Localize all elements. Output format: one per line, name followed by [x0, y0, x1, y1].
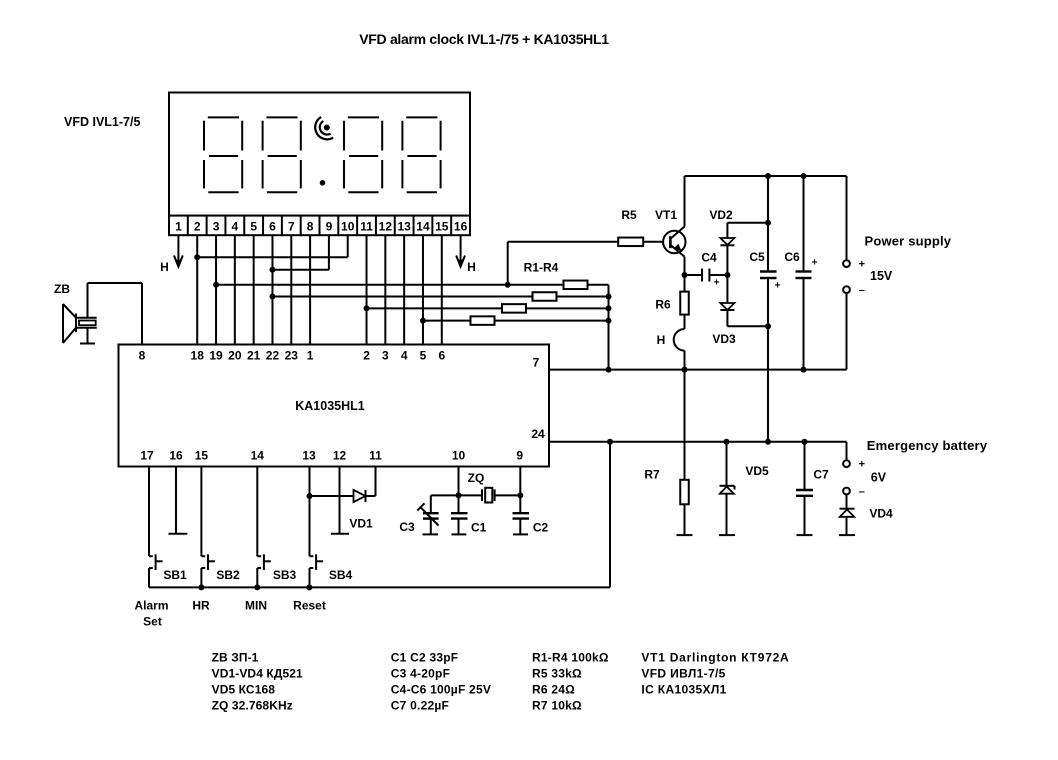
parts list column 2	[391, 651, 491, 713]
wire IC pin 10 down	[458, 467, 460, 514]
trimmer capacitor C3	[417, 495, 458, 534]
svg-text:VD5 КС168: VD5 КС168	[212, 682, 276, 696]
svg-text:SB1: SB1	[163, 568, 187, 582]
junction riser/pin24rail	[607, 439, 613, 445]
filament H arrow at display pin 1	[174, 235, 183, 267]
display digit 3 (7-segment)	[344, 117, 382, 192]
svg-text:VFD alarm clock IVL1-/75 + KA1: VFD alarm clock IVL1-/75 + KA1035HL1	[359, 31, 609, 47]
label VD3	[712, 332, 736, 346]
top supply rail	[685, 175, 847, 177]
wire grid line 1 (from display pin 3)	[216, 284, 608, 286]
label SB3	[273, 568, 297, 582]
capacitor C5	[760, 176, 781, 442]
label R7	[644, 468, 660, 482]
pushbutton SB4	[310, 496, 324, 587]
label C6	[784, 250, 800, 264]
wire top rail to + terminal	[846, 176, 848, 260]
diode VD4	[840, 494, 855, 535]
label C7	[813, 468, 829, 482]
ground bar C3	[423, 533, 439, 535]
svg-text:16: 16	[454, 219, 468, 233]
svg-text:R7 10kΩ: R7 10kΩ	[532, 699, 582, 713]
ground bar C2	[513, 533, 528, 535]
wire R5 to VT1 base	[643, 241, 663, 243]
svg-text:19: 19	[209, 349, 223, 363]
svg-text:Emergency battery: Emergency battery	[867, 438, 988, 453]
svg-text:5: 5	[420, 349, 427, 363]
display digit 2 (7-segment)	[263, 117, 301, 192]
parts list column 4	[641, 651, 789, 697]
svg-text:MIN: MIN	[245, 599, 267, 613]
label SB4	[329, 568, 353, 582]
wire emitter to C4	[685, 274, 728, 276]
svg-text:IC КА1035ХЛ1: IC КА1035ХЛ1	[641, 682, 726, 696]
svg-text:6V: 6V	[871, 471, 887, 485]
wire display pin 13 to IC pin 4	[403, 235, 405, 344]
resistor R6	[680, 275, 689, 329]
wire grid line 2 (from display pin 6)	[272, 296, 608, 298]
junction pin13/VD1	[307, 493, 313, 499]
junctions on R bus	[606, 294, 612, 324]
power + terminal	[843, 260, 850, 267]
label H filament	[657, 333, 666, 347]
label Alarm	[134, 599, 168, 613]
svg-text:15: 15	[195, 449, 209, 463]
resistor R7	[680, 370, 689, 535]
junction C5/pin24rail	[765, 439, 771, 445]
wire grid line 3 (from display pin 11)	[367, 307, 609, 309]
svg-text:+: +	[775, 281, 781, 292]
display digit 4 (7-segment)	[402, 117, 440, 192]
junction VD5/pin24rail	[724, 439, 730, 445]
svg-text:VD3: VD3	[712, 332, 736, 346]
svg-text:17: 17	[140, 449, 154, 463]
svg-text:6: 6	[269, 219, 276, 233]
svg-text:20: 20	[228, 349, 242, 363]
label MIN	[245, 599, 267, 613]
label Power supply	[865, 234, 952, 249]
junction SB2 rail	[198, 584, 204, 590]
svg-text:3: 3	[382, 349, 389, 363]
svg-text:23: 23	[285, 349, 299, 363]
wire display pin 11 to IC pin 2	[366, 235, 368, 344]
svg-text:C3 4-20pF: C3 4-20pF	[391, 666, 450, 680]
svg-text:R5: R5	[621, 208, 637, 222]
pushbutton SB1	[149, 554, 163, 588]
power - terminal	[843, 286, 850, 293]
svg-text:C2: C2	[533, 521, 549, 535]
ground bar VD4	[839, 534, 855, 536]
svg-text:14: 14	[251, 449, 265, 463]
junction VD2/C5	[765, 220, 771, 226]
svg-text:12: 12	[379, 219, 393, 233]
filament H bump symbol	[674, 329, 685, 370]
label C2	[533, 521, 549, 535]
resistor R5	[618, 238, 643, 247]
label VD2	[709, 208, 733, 222]
svg-text:R1-R4 100kΩ: R1-R4 100kΩ	[532, 651, 609, 665]
label SB1	[163, 568, 187, 582]
junction Rbus/pin7rail	[606, 367, 612, 373]
wire IC pin 15 down	[200, 467, 202, 554]
ground bar R7	[677, 534, 693, 536]
wire display pin 3 to IC pin 19	[215, 235, 217, 344]
label ZQ	[468, 471, 485, 485]
label Set	[143, 615, 162, 629]
diode VD3	[720, 275, 734, 326]
svg-text:22: 22	[266, 349, 280, 363]
svg-text:–: –	[859, 285, 865, 297]
label R6	[655, 298, 671, 312]
junction C6/pin7rail	[801, 367, 807, 373]
parts list column 1	[212, 651, 303, 713]
svg-text:KA1035HL1: KA1035HL1	[295, 399, 365, 413]
capacitor C6	[796, 176, 818, 370]
wire R5 branch	[508, 242, 619, 285]
svg-text:ZQ: ZQ	[468, 471, 485, 485]
wire VT1 emitter down	[684, 257, 686, 275]
display pin box row (pins 1-16)	[169, 216, 470, 236]
ZB bottom terminal bar	[80, 328, 95, 344]
svg-text:16: 16	[169, 449, 183, 463]
label battery plus	[859, 459, 865, 471]
svg-text:9: 9	[516, 449, 523, 463]
junction C4/VD2/VD3	[724, 272, 730, 278]
svg-text:1: 1	[175, 219, 182, 233]
junction pin14/grid4	[420, 318, 426, 324]
wire display pin 6 to IC pin 22	[271, 235, 273, 344]
resistor R1	[564, 281, 588, 290]
IC bottom pin labels	[140, 449, 523, 463]
svg-text:C6: C6	[784, 250, 800, 264]
svg-text:4: 4	[232, 219, 239, 233]
crystal ZQ	[459, 488, 521, 503]
label H right	[467, 260, 476, 274]
wire display pin 12 to IC pin 3	[384, 235, 386, 344]
svg-text:C3: C3	[399, 520, 415, 534]
svg-text:+: +	[714, 278, 720, 289]
capacitor C7	[796, 442, 813, 535]
wire link display pin 2 to pin 10	[197, 235, 348, 257]
svg-text:12: 12	[333, 449, 347, 463]
svg-text:SB4: SB4	[329, 568, 353, 582]
wire display pin 7 to IC pin 23	[290, 235, 292, 344]
svg-text:11: 11	[360, 219, 373, 233]
junction pin3/grid1	[213, 282, 219, 288]
svg-text:R5 33kΩ: R5 33kΩ	[532, 666, 582, 680]
svg-text:13: 13	[397, 219, 411, 233]
svg-text:5: 5	[250, 219, 257, 233]
svg-text:21: 21	[247, 349, 261, 363]
svg-text:7: 7	[533, 356, 540, 370]
label KA1035HL1	[295, 399, 365, 413]
svg-text:R7: R7	[644, 468, 660, 482]
svg-text:VT1 Darlington КТ972А: VT1 Darlington КТ972А	[641, 651, 789, 665]
wire VD3 bottom to C5 line	[727, 325, 768, 327]
svg-text:3: 3	[213, 219, 220, 233]
svg-text:VD2: VD2	[709, 208, 733, 222]
label C5	[749, 250, 765, 264]
svg-text:C5: C5	[749, 250, 765, 264]
label VFD IVL1-7/5	[64, 115, 140, 129]
svg-text:Alarm: Alarm	[134, 599, 168, 613]
label Emergency battery	[867, 438, 988, 453]
junction SB4 rail	[307, 584, 313, 590]
junction pin10/crystal	[456, 492, 462, 498]
label 6V	[871, 471, 887, 485]
junction C5 top	[765, 173, 771, 179]
IC KA1035HL1 body	[119, 345, 550, 467]
svg-text:SB2: SB2	[216, 568, 240, 582]
svg-text:H: H	[657, 333, 666, 347]
junction C7/pin24rail	[802, 439, 808, 445]
wire IC pin 12 stub	[331, 467, 349, 534]
pushbutton SB3	[257, 554, 271, 588]
svg-text:VFD IVL1-7/5: VFD IVL1-7/5	[64, 115, 140, 129]
label 15V	[870, 269, 893, 283]
label +15V plus	[859, 259, 865, 271]
alarm indicator icon (dot with arcs)	[315, 117, 333, 139]
capacitor C1	[451, 513, 468, 534]
svg-text:Set: Set	[143, 615, 162, 629]
ground bar C1	[452, 533, 467, 535]
label IC pin 24	[531, 427, 545, 441]
diode VD1	[310, 467, 376, 503]
junction SB3 rail	[254, 584, 260, 590]
svg-text:8: 8	[139, 349, 146, 363]
wire IC pin 13 down	[309, 467, 311, 554]
svg-text:C1 C2 33pF: C1 C2 33pF	[391, 651, 459, 665]
label minus 15V	[859, 285, 865, 297]
label C1	[471, 521, 487, 535]
wire link display pin 6 to pin 9	[272, 235, 328, 270]
junction emitter/C4	[682, 272, 688, 278]
label C3	[399, 520, 415, 534]
svg-text:VD1-VD4 КД521: VD1-VD4 КД521	[212, 666, 303, 680]
junction emitter/pin7rail	[682, 367, 688, 373]
svg-text:+: +	[812, 258, 818, 269]
wire display pin 4 to IC pin 20	[234, 235, 236, 344]
svg-text:H: H	[467, 260, 476, 274]
junction pin9/crystal	[517, 492, 523, 498]
transistor VT1	[663, 227, 685, 257]
svg-text:11: 11	[369, 449, 382, 463]
junction VD3/C5	[765, 323, 771, 329]
svg-text:ZB: ZB	[54, 282, 70, 296]
svg-text:R6: R6	[655, 298, 671, 312]
svg-text:14: 14	[416, 219, 430, 233]
label ZB	[54, 282, 70, 296]
junction at pin6 link	[269, 267, 275, 273]
svg-text:C1: C1	[471, 521, 487, 535]
label R1-R4	[524, 261, 559, 275]
svg-text:VD4: VD4	[869, 507, 893, 521]
svg-text:13: 13	[302, 449, 316, 463]
label SB2	[216, 568, 240, 582]
svg-text:VFD ИВЛ1-7/5: VFD ИВЛ1-7/5	[641, 666, 725, 680]
wire IC pin 9 down	[519, 467, 521, 514]
speaker ZB symbol	[63, 304, 97, 343]
label VD4	[869, 507, 893, 521]
svg-text:6: 6	[438, 349, 445, 363]
svg-text:9: 9	[326, 219, 333, 233]
ground bar C7	[797, 534, 813, 536]
wire - terminal to pin7 rail	[846, 293, 848, 370]
junction at pin2 link	[194, 254, 200, 260]
display digit 1 (7-segment)	[204, 117, 242, 192]
svg-text:C4: C4	[701, 251, 717, 265]
resistor R3	[502, 304, 526, 313]
R bus vertical wire to pin7 rail	[608, 285, 610, 370]
label HR	[192, 599, 210, 613]
label battery minus	[859, 486, 865, 498]
wire IC pin 7 rail	[549, 369, 847, 371]
resistor R4	[471, 316, 495, 325]
svg-text:R1-R4: R1-R4	[524, 261, 559, 275]
svg-text:Power supply: Power supply	[865, 234, 952, 249]
svg-text:4: 4	[401, 349, 408, 363]
junction pin11/grid3	[364, 305, 370, 311]
capacitor C2	[513, 513, 530, 534]
wire IC pin 16 stub	[169, 467, 188, 534]
wire grid line 4 (from display pin 14)	[423, 320, 609, 322]
svg-text:ZB ЗП-1: ZB ЗП-1	[212, 651, 259, 665]
svg-text:R6 24Ω: R6 24Ω	[532, 682, 575, 696]
parts list column 3	[532, 651, 609, 713]
svg-text:SB3: SB3	[273, 568, 297, 582]
label C4	[701, 251, 717, 265]
junction pin6/grid2	[269, 294, 275, 300]
wire IC pin 24 rail	[549, 441, 847, 443]
capacitor C4	[702, 269, 720, 289]
label R5	[621, 208, 637, 222]
svg-text:1: 1	[307, 349, 314, 363]
wire display pin 14 to IC pin 5	[422, 235, 424, 344]
ground bar VD5	[719, 534, 735, 536]
resistor R2	[533, 292, 557, 301]
label VD5	[745, 464, 769, 478]
battery + terminal	[843, 460, 850, 467]
svg-text:10: 10	[452, 449, 466, 463]
svg-text:24: 24	[531, 427, 545, 441]
svg-text:7: 7	[288, 219, 295, 233]
svg-text:Reset: Reset	[293, 599, 326, 613]
wire VT1 collector to top rail	[684, 176, 686, 227]
svg-text:C7 0.22µF: C7 0.22µF	[391, 699, 449, 713]
svg-text:VD1: VD1	[349, 517, 373, 531]
wire display pin 2 to IC pin 18	[196, 235, 198, 344]
svg-text:10: 10	[341, 219, 355, 233]
label VD1	[349, 517, 373, 531]
battery - terminal	[843, 488, 850, 495]
svg-text:H: H	[160, 260, 169, 274]
wire IC pin 14 down	[256, 467, 258, 554]
junction R5 branch on grid1	[505, 282, 511, 288]
label VT1	[655, 208, 677, 222]
wire display pin 8 to IC pin 1	[309, 235, 311, 344]
svg-text:HR: HR	[192, 599, 210, 613]
svg-text:VD5: VD5	[745, 464, 769, 478]
label Reset	[293, 599, 326, 613]
wire ZB to IC pin 8	[88, 283, 143, 345]
IC top pin labels	[139, 349, 446, 363]
svg-text:2: 2	[363, 349, 370, 363]
colon lower dot	[320, 180, 326, 186]
wire display pin 5 to IC pin 21	[253, 235, 255, 344]
svg-text:+: +	[859, 259, 865, 271]
diode VD2	[720, 223, 734, 275]
wire IC pin 17 down	[148, 467, 150, 554]
label IC pin 7	[533, 356, 540, 370]
svg-text:18: 18	[191, 349, 205, 363]
button common rail to IC pin 24	[149, 442, 610, 588]
svg-text:8: 8	[307, 219, 314, 233]
VFD display IVL1-7/5 body	[169, 93, 470, 216]
wire display pin 15 to IC pin 6	[441, 235, 443, 344]
title text	[359, 31, 609, 47]
label H left	[160, 260, 169, 274]
filament H arrow at display pin 16	[456, 235, 465, 267]
wire VD2 top to C5 line	[727, 222, 768, 224]
zener diode VD5	[720, 442, 735, 535]
svg-text:15: 15	[435, 219, 449, 233]
svg-text:2: 2	[194, 219, 201, 233]
svg-text:C4-C6 100µF 25V: C4-C6 100µF 25V	[391, 682, 491, 696]
junction C6 top	[801, 173, 807, 179]
svg-text:15V: 15V	[870, 269, 893, 283]
svg-text:–: –	[859, 486, 865, 498]
pushbutton SB2	[201, 554, 215, 588]
svg-text:+: +	[859, 459, 865, 471]
svg-text:VT1: VT1	[655, 208, 677, 222]
svg-text:C7: C7	[813, 468, 829, 482]
wire pin24 rail to battery + terminal	[846, 442, 848, 461]
svg-text:ZQ 32.768KHz: ZQ 32.768KHz	[212, 699, 293, 713]
